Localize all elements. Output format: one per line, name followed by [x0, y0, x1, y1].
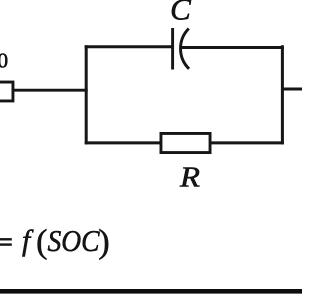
svg-text:R: R [179, 162, 201, 194]
svg-text:C: C [170, 0, 191, 27]
svg-text:(: ( [36, 223, 47, 260]
svg-text:0: 0 [0, 49, 8, 73]
svg-text:): ) [98, 223, 109, 260]
svg-text:f: f [22, 225, 34, 257]
svg-text:SOC: SOC [48, 223, 100, 258]
